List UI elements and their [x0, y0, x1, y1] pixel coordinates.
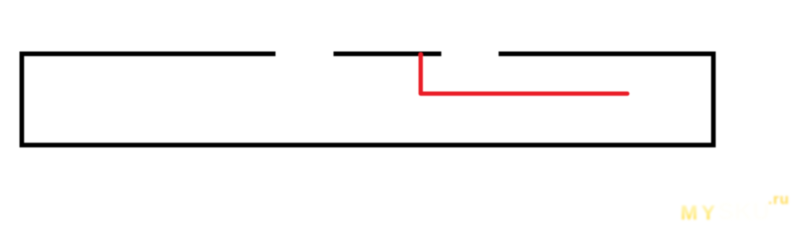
svg-text:MY: MY	[681, 202, 719, 225]
wire: red jumper (down from top edge, then right)	[421, 55, 628, 94]
svg-text:SKU: SKU	[718, 199, 770, 226]
wire: black outline U-shape (left, bottom, right edges with top-left and top-right segments)	[22, 54, 714, 145]
node: watermark MYSKU.ru	[681, 191, 790, 226]
svg-text:.ru: .ru	[768, 191, 790, 208]
wire: black middle top segment	[334, 51, 442, 56]
